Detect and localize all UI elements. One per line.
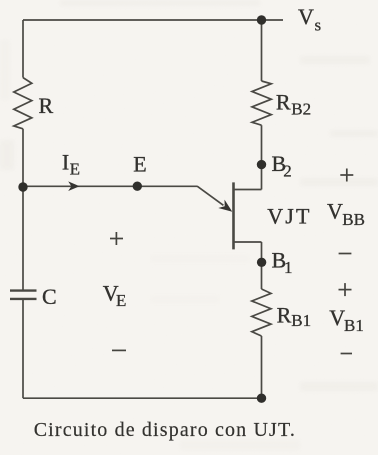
- svg-text:R: R: [277, 303, 292, 328]
- svg-text:I: I: [62, 149, 69, 174]
- svg-text:E: E: [133, 152, 146, 177]
- svg-text:2: 2: [283, 162, 292, 181]
- svg-text:B2: B2: [291, 99, 311, 118]
- svg-text:E: E: [70, 160, 80, 179]
- svg-text:R: R: [276, 90, 291, 115]
- svg-text:V: V: [329, 305, 345, 330]
- svg-text:B1: B1: [344, 316, 364, 335]
- svg-text:Circuito de disparo con UJT.: Circuito de disparo con UJT.: [34, 419, 296, 441]
- svg-text:s: s: [315, 16, 322, 35]
- svg-text:V: V: [327, 199, 343, 224]
- svg-text:C: C: [42, 284, 57, 309]
- svg-text:R: R: [39, 93, 54, 118]
- svg-text:VJT: VJT: [267, 204, 312, 229]
- svg-text:B1: B1: [291, 311, 311, 330]
- svg-text:E: E: [116, 291, 126, 310]
- svg-text:BB: BB: [342, 210, 365, 229]
- svg-text:V: V: [298, 4, 314, 29]
- svg-text:1: 1: [284, 258, 293, 277]
